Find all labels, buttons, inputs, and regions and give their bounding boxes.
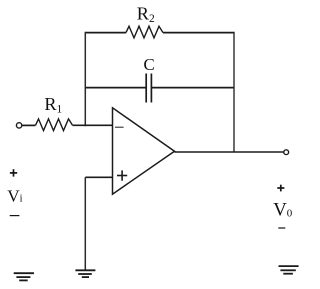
wire: capacitor branch, right segment (151, 87, 234, 89)
op-amp non-inverting input "plus" mark (117, 170, 127, 180)
wire: R1 to inverting input (through node at x=85) (73, 124, 113, 126)
svg-text:Vi: Vi (7, 187, 22, 206)
wire: right vertical of feedback loop (233, 32, 235, 152)
wire: capacitor branch, left segment (85, 87, 146, 89)
op-amp inverting input "minus" mark (115, 126, 124, 128)
svg-text:R1: R1 (44, 94, 62, 116)
ground (bottom right) (279, 266, 299, 274)
wire: left vertical of feedback loop (84, 32, 86, 126)
wire: op-amp output to output terminal (175, 151, 285, 153)
input terminal node (16, 123, 21, 128)
wire: non-inverting input horizontal segment (85, 176, 112, 178)
label + (input polarity) (10, 169, 17, 176)
capacitor C (146, 74, 151, 103)
label minus (input polarity) (10, 215, 20, 217)
wire: top feedback, right segment (163, 32, 234, 34)
svg-text:V0: V0 (273, 199, 293, 220)
wire: non-inverting input down to ground (84, 177, 86, 270)
ground (bottom left) (14, 273, 34, 280)
svg-text:R2: R2 (137, 3, 155, 25)
resistor R2 (126, 26, 163, 38)
output terminal node (284, 150, 289, 155)
label + (output polarity) (277, 185, 284, 192)
ground (middle, at op-amp + input) (75, 270, 95, 277)
op-amp U1 triangle (113, 108, 175, 194)
label minus (output polarity) (278, 227, 285, 229)
wire: top feedback, left segment (85, 32, 126, 34)
svg-text:C: C (144, 55, 155, 74)
wire: input terminal to R1 (22, 124, 36, 126)
resistor R1 (36, 119, 73, 131)
